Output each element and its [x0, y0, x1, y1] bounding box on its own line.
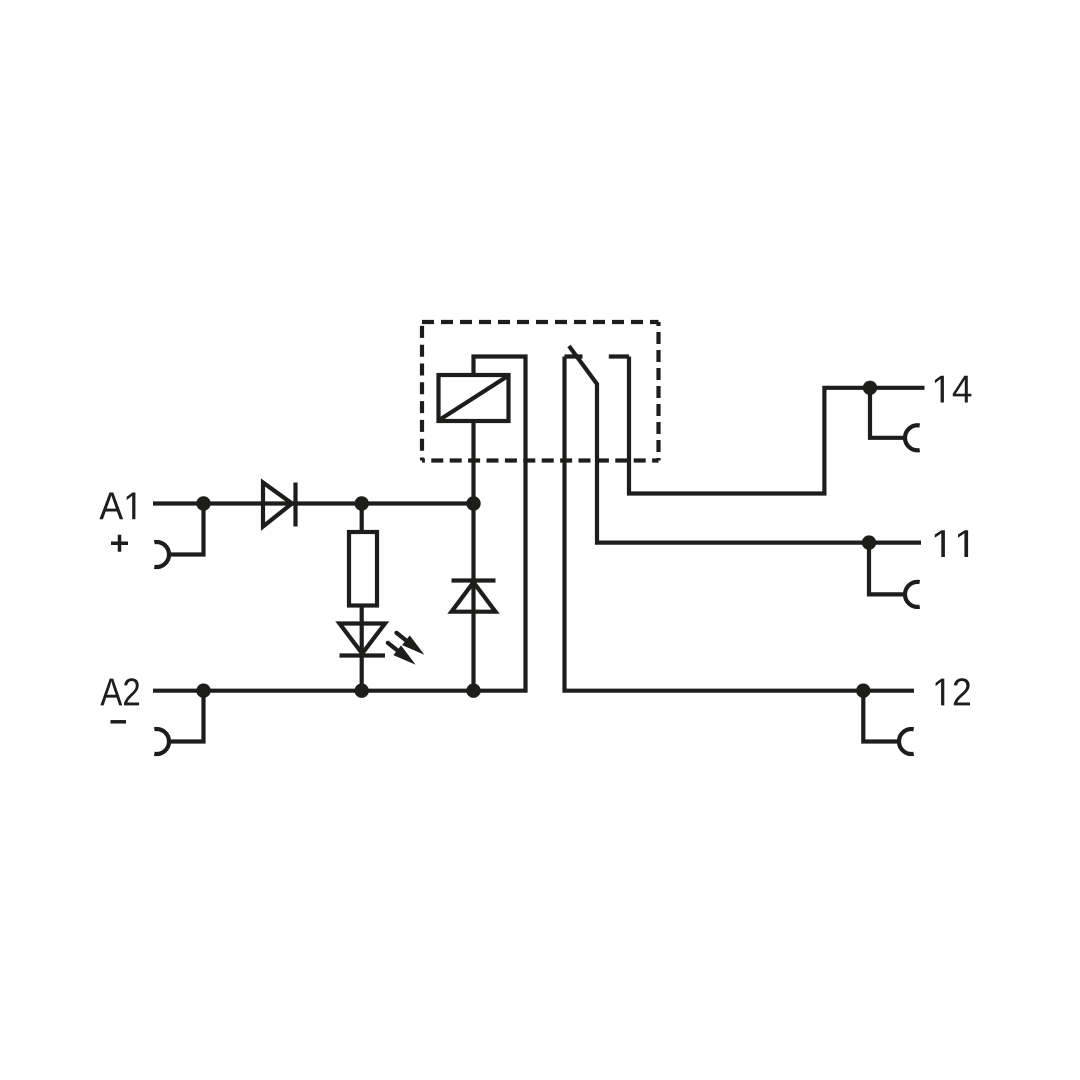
- clamp socket 11: [905, 582, 920, 607]
- diode D2 freewheel: [452, 581, 496, 612]
- label A1: [99, 493, 135, 520]
- LED arrow 1: [393, 628, 429, 660]
- wire 14 clamp drop: [870, 388, 905, 438]
- resistor R1: [349, 532, 377, 606]
- clamp socket A2: [154, 729, 169, 754]
- label 11: [935, 530, 968, 557]
- wire A1 clamp drop: [169, 504, 204, 555]
- switch fixed contact tick: [609, 354, 629, 358]
- relay coil K1: [439, 375, 509, 421]
- wire 11 clamp drop: [869, 543, 905, 595]
- switch pole wire to terminal 12: [565, 357, 915, 691]
- relay enclosure dashed box right edge: [656, 322, 660, 461]
- node A1: [196, 496, 210, 510]
- switch pole tick: [565, 354, 583, 358]
- node resistor top: [355, 496, 369, 510]
- node coil bottom: [466, 496, 480, 510]
- wire A1 horizontal: [153, 501, 474, 505]
- label 12: [936, 678, 970, 705]
- wire 12 clamp drop: [863, 691, 899, 742]
- relay enclosure dashed box bottom edge: [422, 458, 659, 462]
- node LED bottom: [355, 684, 369, 698]
- node freewheel bottom: [466, 684, 480, 698]
- relay enclosure dashed box top edge: [422, 320, 659, 324]
- wire A2 clamp drop: [169, 691, 204, 742]
- clamp socket 12: [899, 729, 914, 754]
- label A2: [100, 678, 139, 705]
- wire coil-bottom / freewheel branch: [471, 421, 475, 691]
- diode D1: [263, 483, 296, 527]
- label 14: [935, 376, 972, 403]
- wire fixed contact to terminal 14: [629, 357, 925, 494]
- clamp socket 14: [905, 425, 920, 450]
- node A2: [196, 684, 210, 698]
- clamp socket A1: [154, 542, 169, 567]
- LED arrow 2: [384, 638, 420, 670]
- wire resistor branch: [360, 504, 364, 691]
- node 11: [862, 535, 876, 549]
- plus sign: [111, 535, 128, 552]
- minus sign: [111, 720, 127, 724]
- relay enclosure dashed box left edge: [420, 322, 424, 461]
- node 12: [856, 684, 870, 698]
- node 14: [863, 381, 877, 395]
- switch blade wire to terminal 11: [569, 346, 921, 543]
- LED D3: [340, 624, 386, 656]
- wire A2 horizontal + up to coil top: [153, 357, 526, 691]
